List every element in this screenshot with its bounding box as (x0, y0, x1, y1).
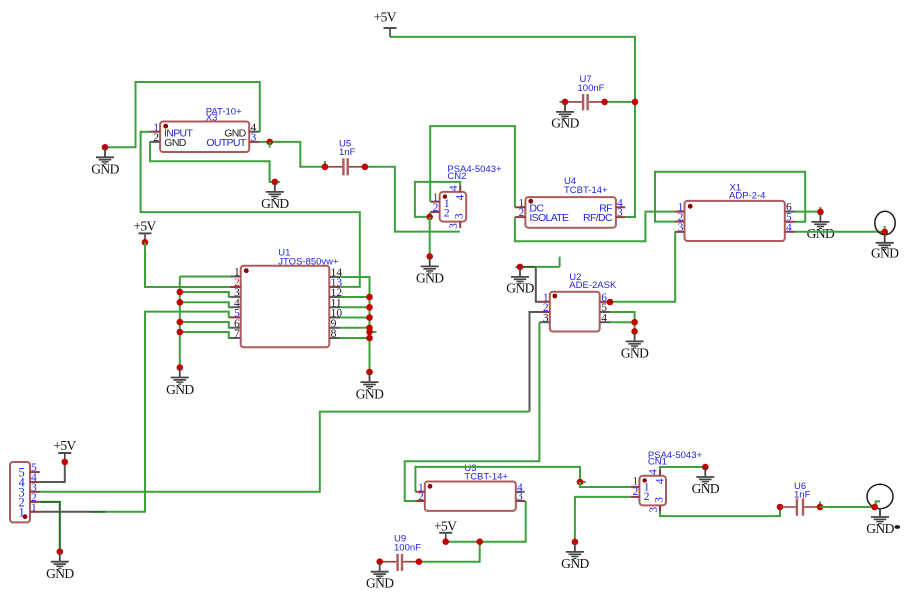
pin stub X1.6 (785, 211, 795, 213)
wire: branch down to U9 (419, 542, 480, 562)
svg-text:3: 3 (454, 213, 466, 219)
power +5V at U1 pin 2 (139, 233, 152, 242)
capacitor U7 100nF (565, 74, 605, 110)
pin stub U3.3 (516, 500, 526, 502)
wire: CN1 pin 3 to U6 (660, 507, 780, 516)
wire: U2 GND dot dark segment (520, 266, 536, 268)
wire: X1 pin 4 to RF port circle (795, 231, 883, 233)
wire: CN2 pin 4 over-the-top loop to pin 2 junction (415, 182, 460, 217)
wire: U2 pin 3 to U3 pin 2 (405, 322, 540, 501)
pin stub U1.14 (329, 276, 340, 278)
pin stub X1.1 (675, 211, 685, 213)
svg-text:1: 1 (19, 506, 25, 520)
connector X2 5-pin header (10, 462, 40, 522)
svg-text:RF/DC: RF/DC (583, 212, 613, 224)
ground GND below CN2 (421, 257, 439, 273)
ground GND below CN1 pin 2 (566, 543, 584, 559)
wire: GND tick left of U2 GND dot (515, 266, 520, 268)
junction dot U6 right (817, 504, 824, 511)
wire: CN1 pin 2 to GND (575, 497, 630, 542)
pin stub U2.4 (600, 321, 610, 323)
pin stub X3.4 (249, 131, 260, 133)
ground GND below top port (876, 234, 894, 250)
wire: CN1 pin 4 to GND (660, 467, 705, 469)
junction dot U9 right (416, 558, 423, 565)
pin stub U4.4 (616, 206, 625, 208)
ground GND below X3 (266, 183, 284, 199)
pin stub U2.6 (600, 301, 610, 303)
wire: U5 right to CN2 pin 3 (365, 167, 460, 232)
junction dot U2 GND (517, 264, 524, 271)
pin stub CN2.3 (459, 222, 461, 228)
svg-text:4: 4 (455, 194, 467, 200)
pin stub U4.3 (616, 216, 625, 218)
svg-text:GND: GND (807, 226, 835, 241)
connector CN1 PSA4-5043+ (630, 450, 702, 513)
pin stub CN1.3 (659, 505, 661, 511)
wire: left GND to X3 pin 4 loop (105, 82, 260, 147)
svg-text:100nF: 100nF (578, 83, 605, 94)
svg-text:4: 4 (654, 478, 666, 484)
svg-text:3: 3 (653, 497, 665, 503)
pin stub X2.5 (30, 471, 40, 473)
pin stub CN1.2 (630, 496, 639, 498)
svg-text:TCBT-14+: TCBT-14+ (564, 185, 608, 196)
ground GND below X2 (51, 553, 69, 569)
wire: tick above port dot (884, 226, 886, 232)
pin stub CN2.1 (430, 201, 439, 203)
wire: X2 pin 3 long net (40, 412, 530, 492)
wire: U1 pin 1 to GND rail (180, 276, 230, 278)
junction dot X2 GND (57, 548, 64, 555)
svg-text:ISOLATE: ISOLATE (529, 212, 569, 224)
svg-text:CN2: CN2 (447, 171, 466, 182)
wire: X3 pin 3 to U5 (260, 142, 325, 167)
svg-text:GND: GND (166, 382, 194, 397)
pin stub U1.2 (230, 286, 241, 288)
wire: U6 to bottom port (820, 506, 874, 508)
junction dot CN1.2 GND (572, 539, 579, 546)
pin stub CN1.1 (630, 486, 639, 488)
svg-text:TCBT-14+: TCBT-14+ (464, 471, 508, 482)
junction dot U2 pin 6 (607, 299, 614, 306)
wire: X3 pin 1 to U1 pin 13 (141, 132, 360, 287)
junction dot with stub on X3 output net (266, 139, 273, 146)
pin stub U1.8 (329, 337, 340, 339)
junction dot U5 left (322, 164, 329, 171)
junction dot U7 left (562, 99, 569, 106)
svg-text:ADP-2-4: ADP-2-4 (729, 191, 765, 202)
junction dot GND below X3 (272, 179, 279, 186)
pin stub X3.1 (150, 131, 160, 133)
junction dot CN2 pin2/4 net (426, 214, 433, 221)
pin stub U2.5 (600, 311, 610, 313)
ground GND below U1 left (171, 369, 189, 385)
svg-text:1nF: 1nF (339, 147, 356, 158)
pin stub U3.4 (516, 491, 525, 493)
pin stub U1.5 (230, 316, 241, 318)
junction dot U6 left (777, 504, 784, 511)
pin stub U1.3 (230, 296, 241, 298)
svg-text:GND: GND (551, 116, 579, 131)
ground GND below U9 (371, 563, 389, 579)
wire: U7 right lead to +5V rail (605, 101, 635, 103)
wire: X2 pin 4 to +5V (40, 462, 65, 482)
svg-text:GND: GND (866, 521, 894, 536)
wire: U1 pin 8 (340, 337, 369, 339)
wire: CN2 pin 1 to U4 pin 1 (430, 126, 515, 207)
wire: U2 pin 4 to GND junction (610, 321, 635, 323)
svg-text:CN1: CN1 (648, 457, 667, 468)
pin stub U1.7 (230, 337, 241, 339)
wire: CN2 junction down to GND (429, 217, 431, 257)
svg-text:4: 4 (648, 469, 660, 475)
wire: tick on right rail (370, 331, 377, 333)
wire: U1 pin 14 to right GND rail (340, 277, 369, 372)
pin stub U1.6 (230, 327, 241, 329)
power +5V at U3 (439, 533, 452, 542)
svg-text:GND: GND (871, 246, 899, 261)
wire: port pin hook (876, 501, 880, 506)
capacitor U5 1nF (325, 138, 365, 175)
pin stub X2.1 (30, 511, 40, 513)
capacitor U6 1nF (780, 481, 820, 516)
wire: U1 pin 4 (180, 302, 231, 307)
wire: U1 pin 12 (340, 296, 369, 298)
junction dot +5V rail / U7 (632, 99, 639, 106)
mixer U1 JTOS-850vw+ (230, 247, 343, 347)
port circle bottom right (867, 484, 893, 508)
pin stub U3.2 (415, 500, 424, 502)
svg-text:X3: X3 (206, 113, 218, 124)
wire: U1 left GND rail vertical (179, 277, 181, 368)
svg-text:+5V: +5V (374, 10, 397, 25)
svg-text:+5V: +5V (434, 519, 457, 534)
pin stub X3.2 (150, 141, 161, 143)
junction dot CN1.4 GND (702, 464, 709, 471)
pin stub X1.4 (785, 231, 795, 233)
svg-text:3: 3 (448, 223, 460, 229)
wire: U1 pin 6 (180, 322, 231, 328)
svg-text:GND: GND (692, 481, 720, 496)
pin stub X2.4 (30, 481, 40, 483)
pin stub U2.2 (539, 311, 549, 313)
svg-text:+5V: +5V (133, 218, 156, 233)
wire: U3 pin 3 to +5V rail (446, 501, 526, 542)
svg-text:100nF: 100nF (394, 542, 421, 553)
pin stub X3.3 (249, 141, 260, 143)
wire: +5V top rail to U4 pin 3 (390, 37, 635, 217)
wire: U1 pin 10 (340, 317, 369, 319)
wire: U3 pin 1 to CN1 pin 1 (415, 467, 580, 492)
junction dot U5 right (362, 164, 369, 171)
wire: +5V to U1 pin 2 (145, 242, 230, 287)
pin stub CN2.4 (459, 186, 461, 192)
ground GND below U7 (556, 103, 574, 119)
bias tee U3 TCBT-14+ (415, 463, 525, 511)
ground GND left of X3 (96, 148, 114, 164)
pin stub U1.11 (329, 306, 340, 308)
junction dot +5V U1 (142, 239, 149, 246)
svg-text:GND: GND (366, 576, 394, 591)
wire: U7 left tick to GND junction (560, 101, 566, 103)
wire: jog down to CN1 pin 1 (580, 482, 630, 487)
junction dot U2 pin4 (631, 319, 638, 326)
bias tee U4 TCBT-14+ (515, 176, 625, 228)
port circle top right (875, 211, 895, 234)
pin stub X2.2 (30, 501, 40, 503)
svg-text:2: 2 (444, 207, 450, 219)
pin stub U1.12 (329, 296, 340, 298)
pin stub X1.5 (785, 221, 795, 223)
junction dots U1 right rail (366, 294, 373, 301)
pin stub CN1.4 (659, 469, 661, 475)
wire: tick right of dot (580, 481, 586, 483)
wire: U2 pin 2 gray to X2 pin 3 net (530, 312, 540, 412)
ground GND below bottom port (879, 509, 881, 517)
ground GND at U2 pin 1 (511, 268, 529, 284)
svg-text:GND: GND (561, 556, 589, 571)
junction dot branch (476, 538, 483, 545)
pin stub U1.1 (230, 276, 241, 278)
wire: CN2 pin 2 down to junction (429, 212, 431, 217)
amplifier X3 PAT-10+ (150, 107, 260, 153)
wire: U1 pin 7 (180, 332, 231, 338)
pin stub U4.1 (515, 206, 526, 208)
pin stub U2.1 (539, 301, 549, 303)
pin stub X2.3 (30, 491, 40, 493)
junction dot bottom port (871, 504, 878, 511)
ground GND at X1 pin 6 (811, 213, 829, 229)
wire: tick above U6 right dot (819, 502, 821, 507)
junction dot at left GND (102, 144, 109, 151)
connector CN2 PSA4-5043+ (430, 164, 502, 229)
ground GND below U2 (626, 332, 644, 348)
power +5V at X2 (58, 453, 71, 462)
pin stub U3.1 (415, 491, 424, 493)
wire: U2 pin 6 to X1 pin 3 (610, 232, 675, 302)
junction dot U7 right (601, 99, 608, 106)
wire: U1 pin 5 to X2 pin 1 (105, 312, 230, 512)
pin stub U1.13 (329, 286, 340, 288)
svg-text:GND: GND (164, 137, 186, 149)
pin stub U1.4 (230, 306, 241, 308)
svg-text:1nF: 1nF (794, 490, 811, 501)
wire: tick above U5 left dot (324, 161, 326, 167)
svg-text:ADE-2ASK: ADE-2ASK (569, 280, 617, 291)
wire: X1 pin 5 loop over to X1 pin 2 (655, 172, 805, 222)
svg-text:4: 4 (448, 185, 460, 191)
svg-text:GND: GND (91, 162, 119, 177)
pin stub CN2.2 (430, 211, 439, 213)
svg-text:+5V: +5V (53, 438, 76, 453)
svg-text:GND: GND (356, 386, 384, 401)
svg-text:OUTPUT: OUTPUT (206, 137, 247, 149)
svg-text:GND: GND (621, 345, 649, 360)
wire: U2 pin 5 to GND (610, 312, 635, 331)
ground GND right of CN1 (696, 468, 714, 484)
junction dot RF port (881, 229, 888, 236)
svg-text:3: 3 (648, 507, 660, 513)
splitter X1 ADP-2-4 (675, 182, 795, 241)
junction dot +5V X2 (62, 459, 69, 466)
junction dot U2 GND right (631, 328, 638, 335)
pin stub U2.3 (539, 321, 549, 323)
junction dot X1 pin6 GND (817, 209, 824, 216)
wire: U1 pin 11 (340, 306, 369, 308)
junction dot +5V U3 (442, 538, 449, 545)
wire: X1 pin 6 to GND (795, 211, 820, 213)
svg-text:JTOS-850vw+: JTOS-850vw+ (278, 257, 339, 268)
modulator U2 ADE-2ASK (539, 272, 617, 331)
wire: gray drop to U2 pin 1 (536, 267, 540, 302)
ground GND below U1 right (361, 373, 379, 389)
wire: U1 pin 9 (340, 327, 369, 329)
wire: X2 pin 2 to GND (40, 502, 60, 552)
wire: U1 pin 3 (180, 292, 231, 297)
svg-text:GND: GND (416, 271, 444, 286)
small dot glyph right of GND (895, 525, 901, 529)
wire: tick above X1.6 GND dot (819, 207, 821, 212)
wire: X3 pin 2 to GND below X3 (150, 142, 275, 182)
pin stub X1.3 (675, 231, 685, 233)
junction dot U3.1/CN1.1 net (577, 479, 584, 486)
capacitor U9 100nF (380, 533, 421, 571)
pin stub U1.10 (329, 317, 340, 319)
junction dots U1 left rail (177, 289, 184, 296)
svg-text:2: 2 (644, 491, 650, 503)
pin stub X1.2 (675, 221, 685, 223)
svg-text:GND: GND (506, 281, 534, 296)
power +5V top (384, 28, 397, 37)
junction dot CN2 GND (426, 253, 433, 260)
wire: tick right of GND dot below X3 (275, 181, 280, 183)
wire: U4 pin 2 to X1 pin 1 (515, 212, 675, 242)
svg-text:GND: GND (261, 196, 289, 211)
svg-text:GND: GND (46, 566, 74, 581)
pin stub U4.2 (515, 216, 526, 218)
junction dot U9 left (376, 558, 383, 565)
wire: X2 pin 1 gray then dark green (40, 511, 90, 513)
wire: green segment right with up tick (536, 257, 560, 267)
pin stub U1.9 (329, 327, 340, 329)
